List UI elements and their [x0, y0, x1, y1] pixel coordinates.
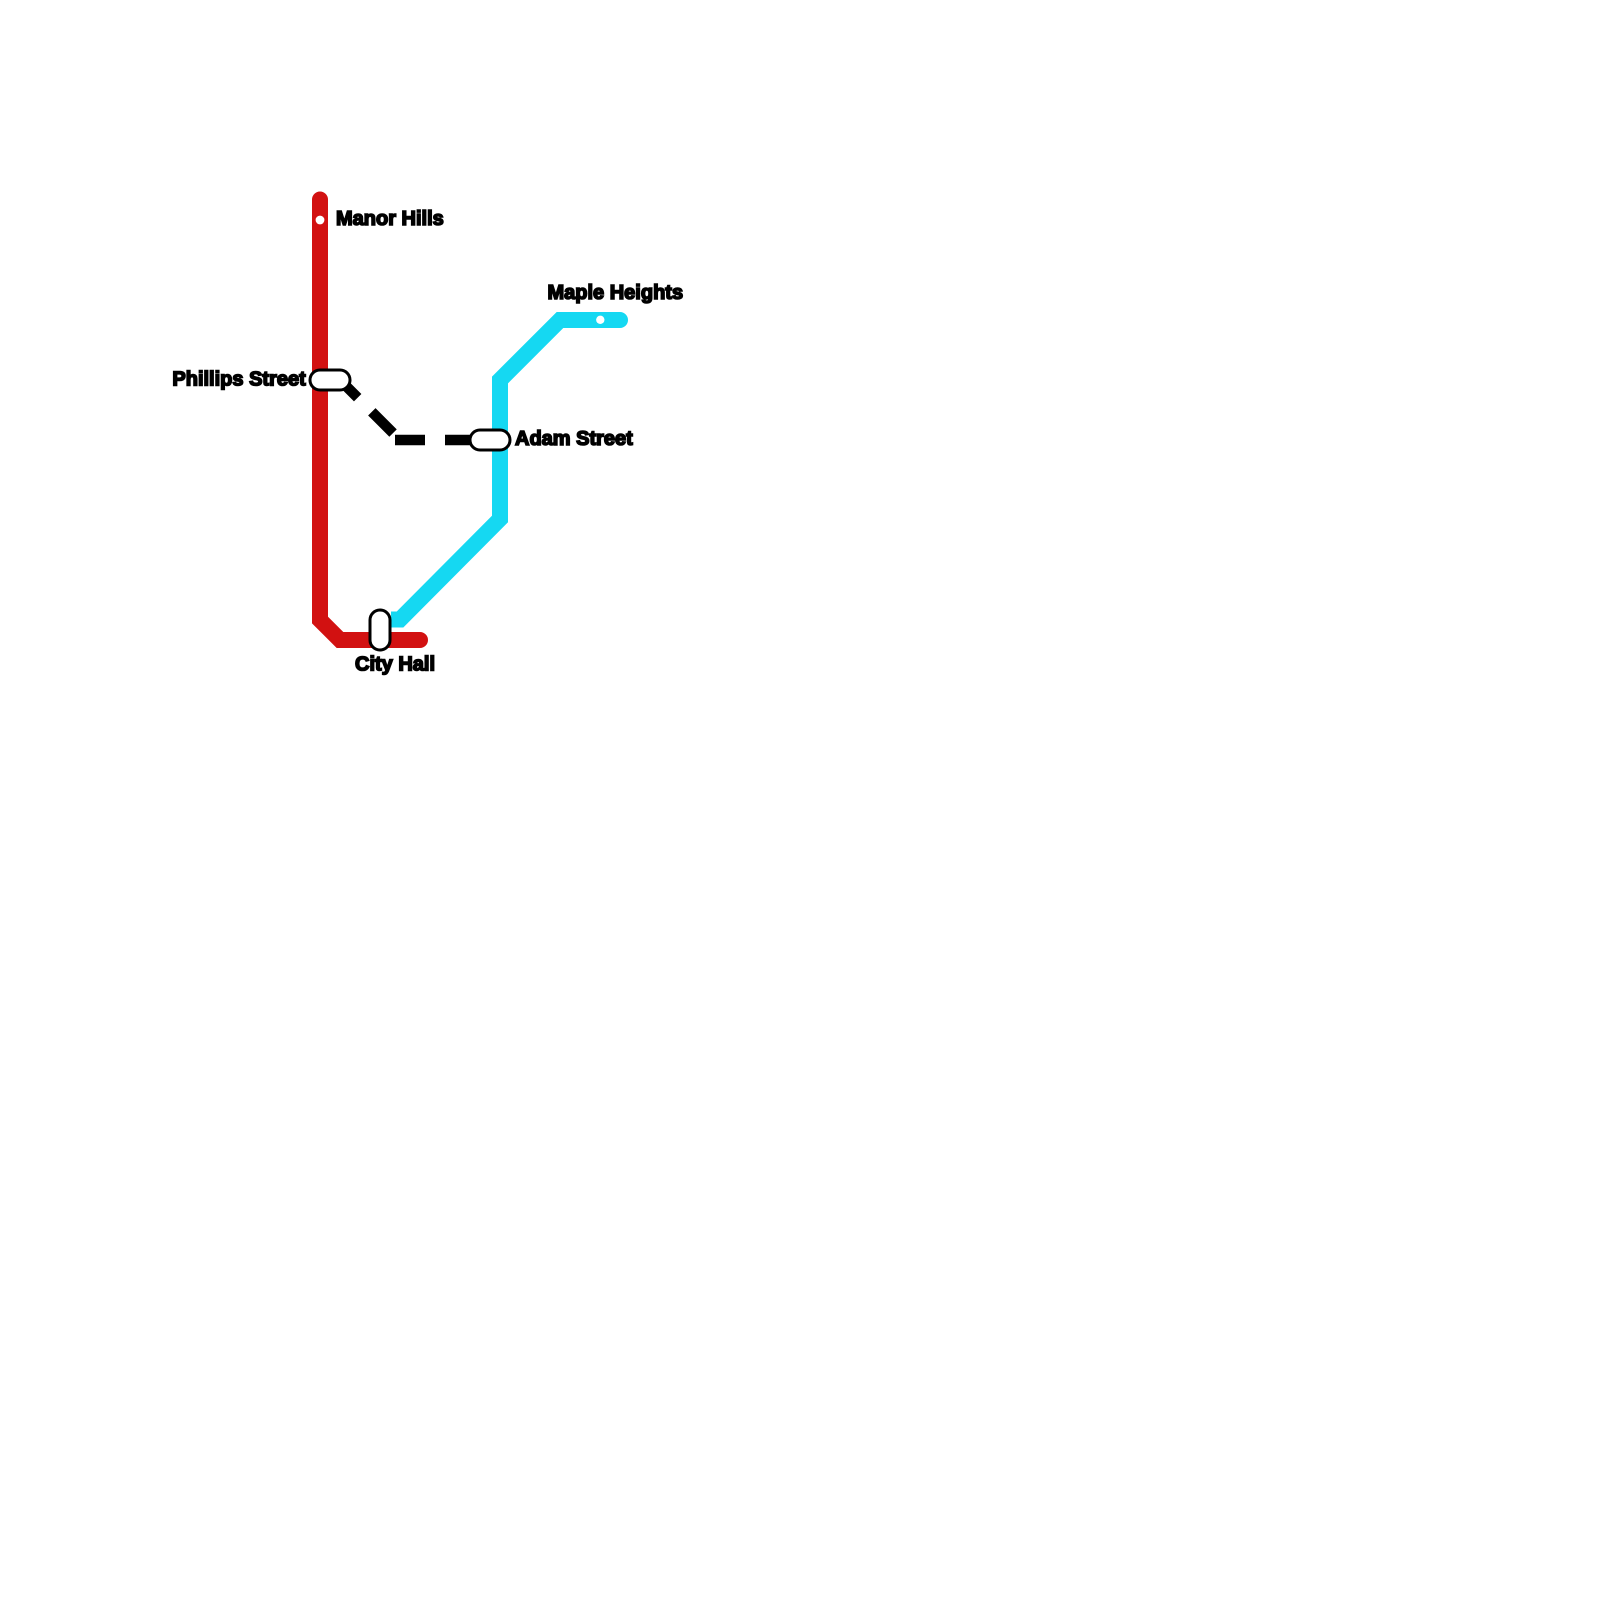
svg-text:Phillips Street: Phillips Street: [172, 369, 306, 391]
svg-text:City Hall: City Hall: [355, 653, 435, 675]
svg-text:Adam Street: Adam Street: [515, 428, 633, 450]
svg-text:Maple Heights: Maple Heights: [548, 282, 684, 304]
svg-text:Manor Hills: Manor Hills: [336, 208, 444, 230]
